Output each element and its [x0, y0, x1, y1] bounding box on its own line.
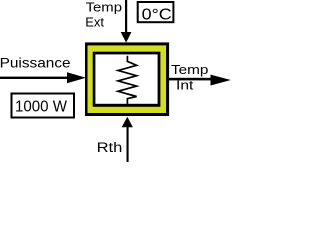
- svg-text:0°C: 0°C: [142, 6, 172, 23]
- svg-text:Ext: Ext: [85, 14, 104, 29]
- wire: Puissance input arrow (left, pointing right into block): [0, 72, 86, 83]
- svg-text:Rth: Rth: [97, 140, 123, 155]
- label Temp Int (internal temperature output): [171, 62, 208, 92]
- svg-text:Temp: Temp: [86, 0, 122, 14]
- thermal block outer black border: [85, 42, 169, 116]
- wire: Rth input arrow (bottom, pointing up into block): [122, 117, 133, 162]
- wire: Temp Ext input arrow (top, pointing down into block): [121, 0, 132, 43]
- resistor Rth (thermal resistance zigzag): [118, 56, 137, 104]
- label Temp Ext (external temperature input): [85, 0, 122, 29]
- svg-text:Puissance: Puissance: [0, 56, 71, 71]
- thermal block yellow frame: [88, 45, 167, 113]
- svg-text:Temp: Temp: [171, 62, 208, 77]
- value box 1000 W (Puissance value): [12, 94, 75, 118]
- svg-text:1000 W: 1000 W: [15, 99, 68, 116]
- thermal block white interior: [95, 54, 157, 103]
- wire: Temp Int output arrow (right, pointing right out of block): [169, 75, 231, 86]
- thermal block inner black border: [93, 52, 161, 107]
- value box 0°C (Temp Ext value): [138, 2, 174, 23]
